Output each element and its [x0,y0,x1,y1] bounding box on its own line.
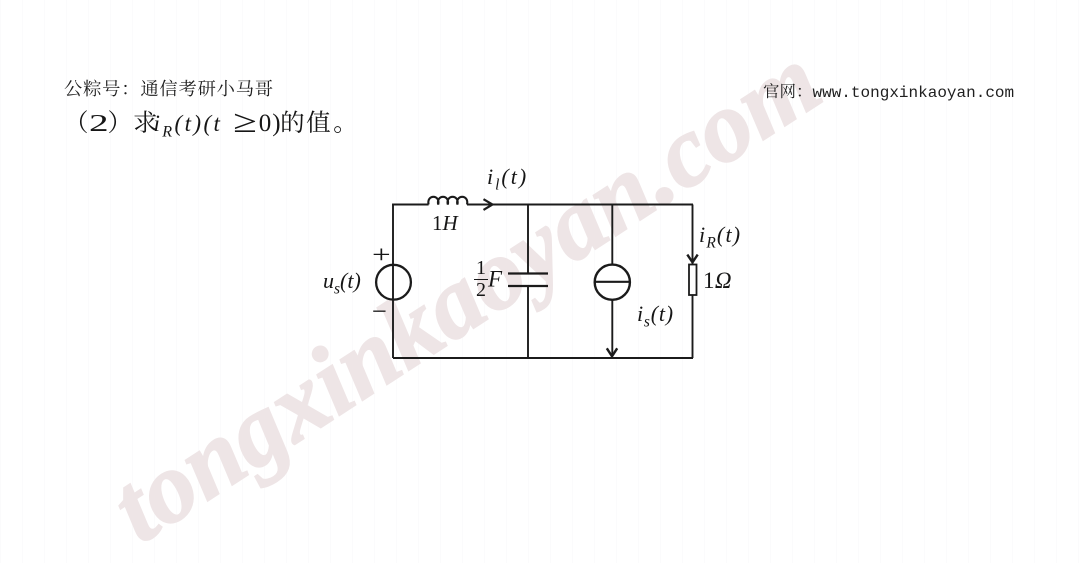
label us(t) [323,268,361,298]
resistor R1 1 ohm body [689,265,697,296]
wire: resistor branch upper lead from node D [692,205,694,265]
arrow: current direction iR downward into resistor [687,255,697,263]
arrow: current direction is(t) downward [607,348,617,356]
wire: top segment from inductor to node D (top-right corner) [467,204,693,206]
wire: resistor branch lower lead to bottom conductor [692,295,694,358]
label iR(t) [699,222,741,252]
label 1/2 F [474,258,502,301]
minus sign of source [372,296,387,327]
label is(t) [637,301,674,331]
label 1 ohm [703,268,732,294]
voltage source U1 us(t) [376,265,411,300]
watermark tongxinkaoyan.com [95,29,836,559]
plus sign of source [372,240,391,270]
wire: capacitor branch upper lead from node B [527,205,529,274]
wire: bottom return conductor [393,357,693,359]
problem heading [64,104,358,142]
header public account text [64,75,274,101]
header website text [763,78,1014,102]
label 1H [432,211,458,236]
wire: left branch through voltage source [392,205,394,359]
wire: current source branch lower lead [611,299,613,354]
wire: capacitor branch lower lead to bottom conductor [527,286,529,358]
wire: top-left segment from node A to inductor [393,205,429,206]
capacitor C1 1/2 F bottom plate [508,285,548,287]
wire: current source branch upper lead from node C [611,205,613,266]
current source I1 is(t) [595,265,630,300]
capacitor C1 1/2 F top plate [508,272,548,274]
label il(t) [487,164,528,194]
inductor L1 1H [428,197,467,205]
arrow: current direction i_l on top wire [484,199,493,210]
